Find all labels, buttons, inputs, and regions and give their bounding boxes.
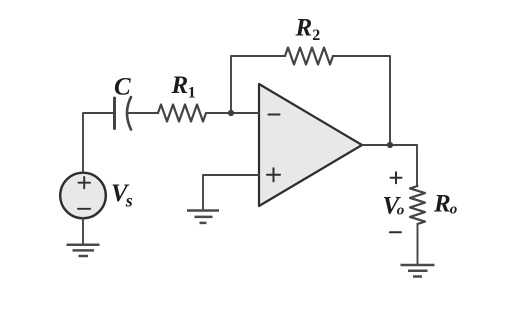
svg-text:Ro: Ro <box>433 191 457 218</box>
svg-text:R1: R1 <box>171 72 196 102</box>
svg-text:Vo: Vo <box>383 193 405 220</box>
svg-text:R2: R2 <box>295 15 321 45</box>
svg-text:C: C <box>114 74 131 101</box>
svg-text:Vs: Vs <box>111 180 133 211</box>
